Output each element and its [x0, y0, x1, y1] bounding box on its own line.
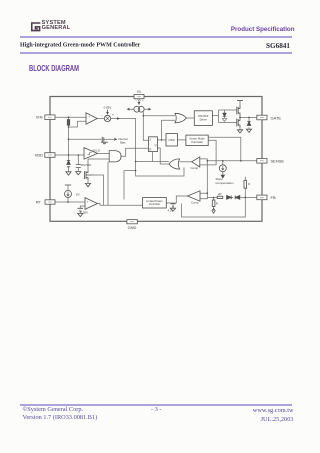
svg-text:SENSE: SENSE	[271, 159, 285, 164]
svg-text:VDD: VDD	[35, 153, 43, 158]
svg-text:+: +	[112, 113, 114, 117]
svg-text:RT: RT	[36, 199, 42, 204]
svg-text:Comp: Comp	[191, 201, 199, 205]
svg-text:5V: 5V	[76, 192, 80, 196]
svg-text:4.2V: 4.2V	[168, 209, 174, 213]
svg-text:-: -	[101, 113, 102, 117]
svg-text:2R: 2R	[218, 192, 222, 196]
svg-text:OSC: OSC	[168, 138, 175, 142]
svg-text:+: +	[88, 114, 90, 118]
svg-text:Controller: Controller	[191, 140, 203, 144]
svg-text:R: R	[248, 182, 250, 186]
svg-text:FB: FB	[271, 195, 276, 200]
svg-text:R: R	[216, 202, 218, 206]
svg-text:Comp: Comp	[191, 166, 199, 170]
svg-text:Controller: Controller	[149, 202, 160, 206]
svg-text:GND: GND	[128, 225, 137, 230]
svg-text:-: -	[88, 121, 89, 125]
svg-text:Q: Q	[155, 143, 157, 147]
svg-text:VIN: VIN	[36, 115, 43, 120]
svg-text:+: +	[87, 200, 89, 204]
svg-text:Driver: Driver	[200, 118, 208, 122]
svg-text:Bias: Bias	[120, 141, 126, 145]
svg-text:RI: RI	[137, 90, 140, 94]
svg-text:Compensation: Compensation	[216, 181, 234, 185]
svg-text:S: S	[150, 138, 152, 142]
svg-text:GATE: GATE	[271, 115, 282, 120]
svg-text:16V/10V: 16V/10V	[81, 163, 92, 167]
svg-text:R: R	[150, 148, 152, 152]
svg-text:UVLO: UVLO	[92, 148, 101, 152]
svg-text:-: -	[87, 205, 88, 209]
svg-text:0.85V: 0.85V	[104, 105, 112, 109]
svg-text:1.05V: 1.05V	[81, 211, 88, 215]
